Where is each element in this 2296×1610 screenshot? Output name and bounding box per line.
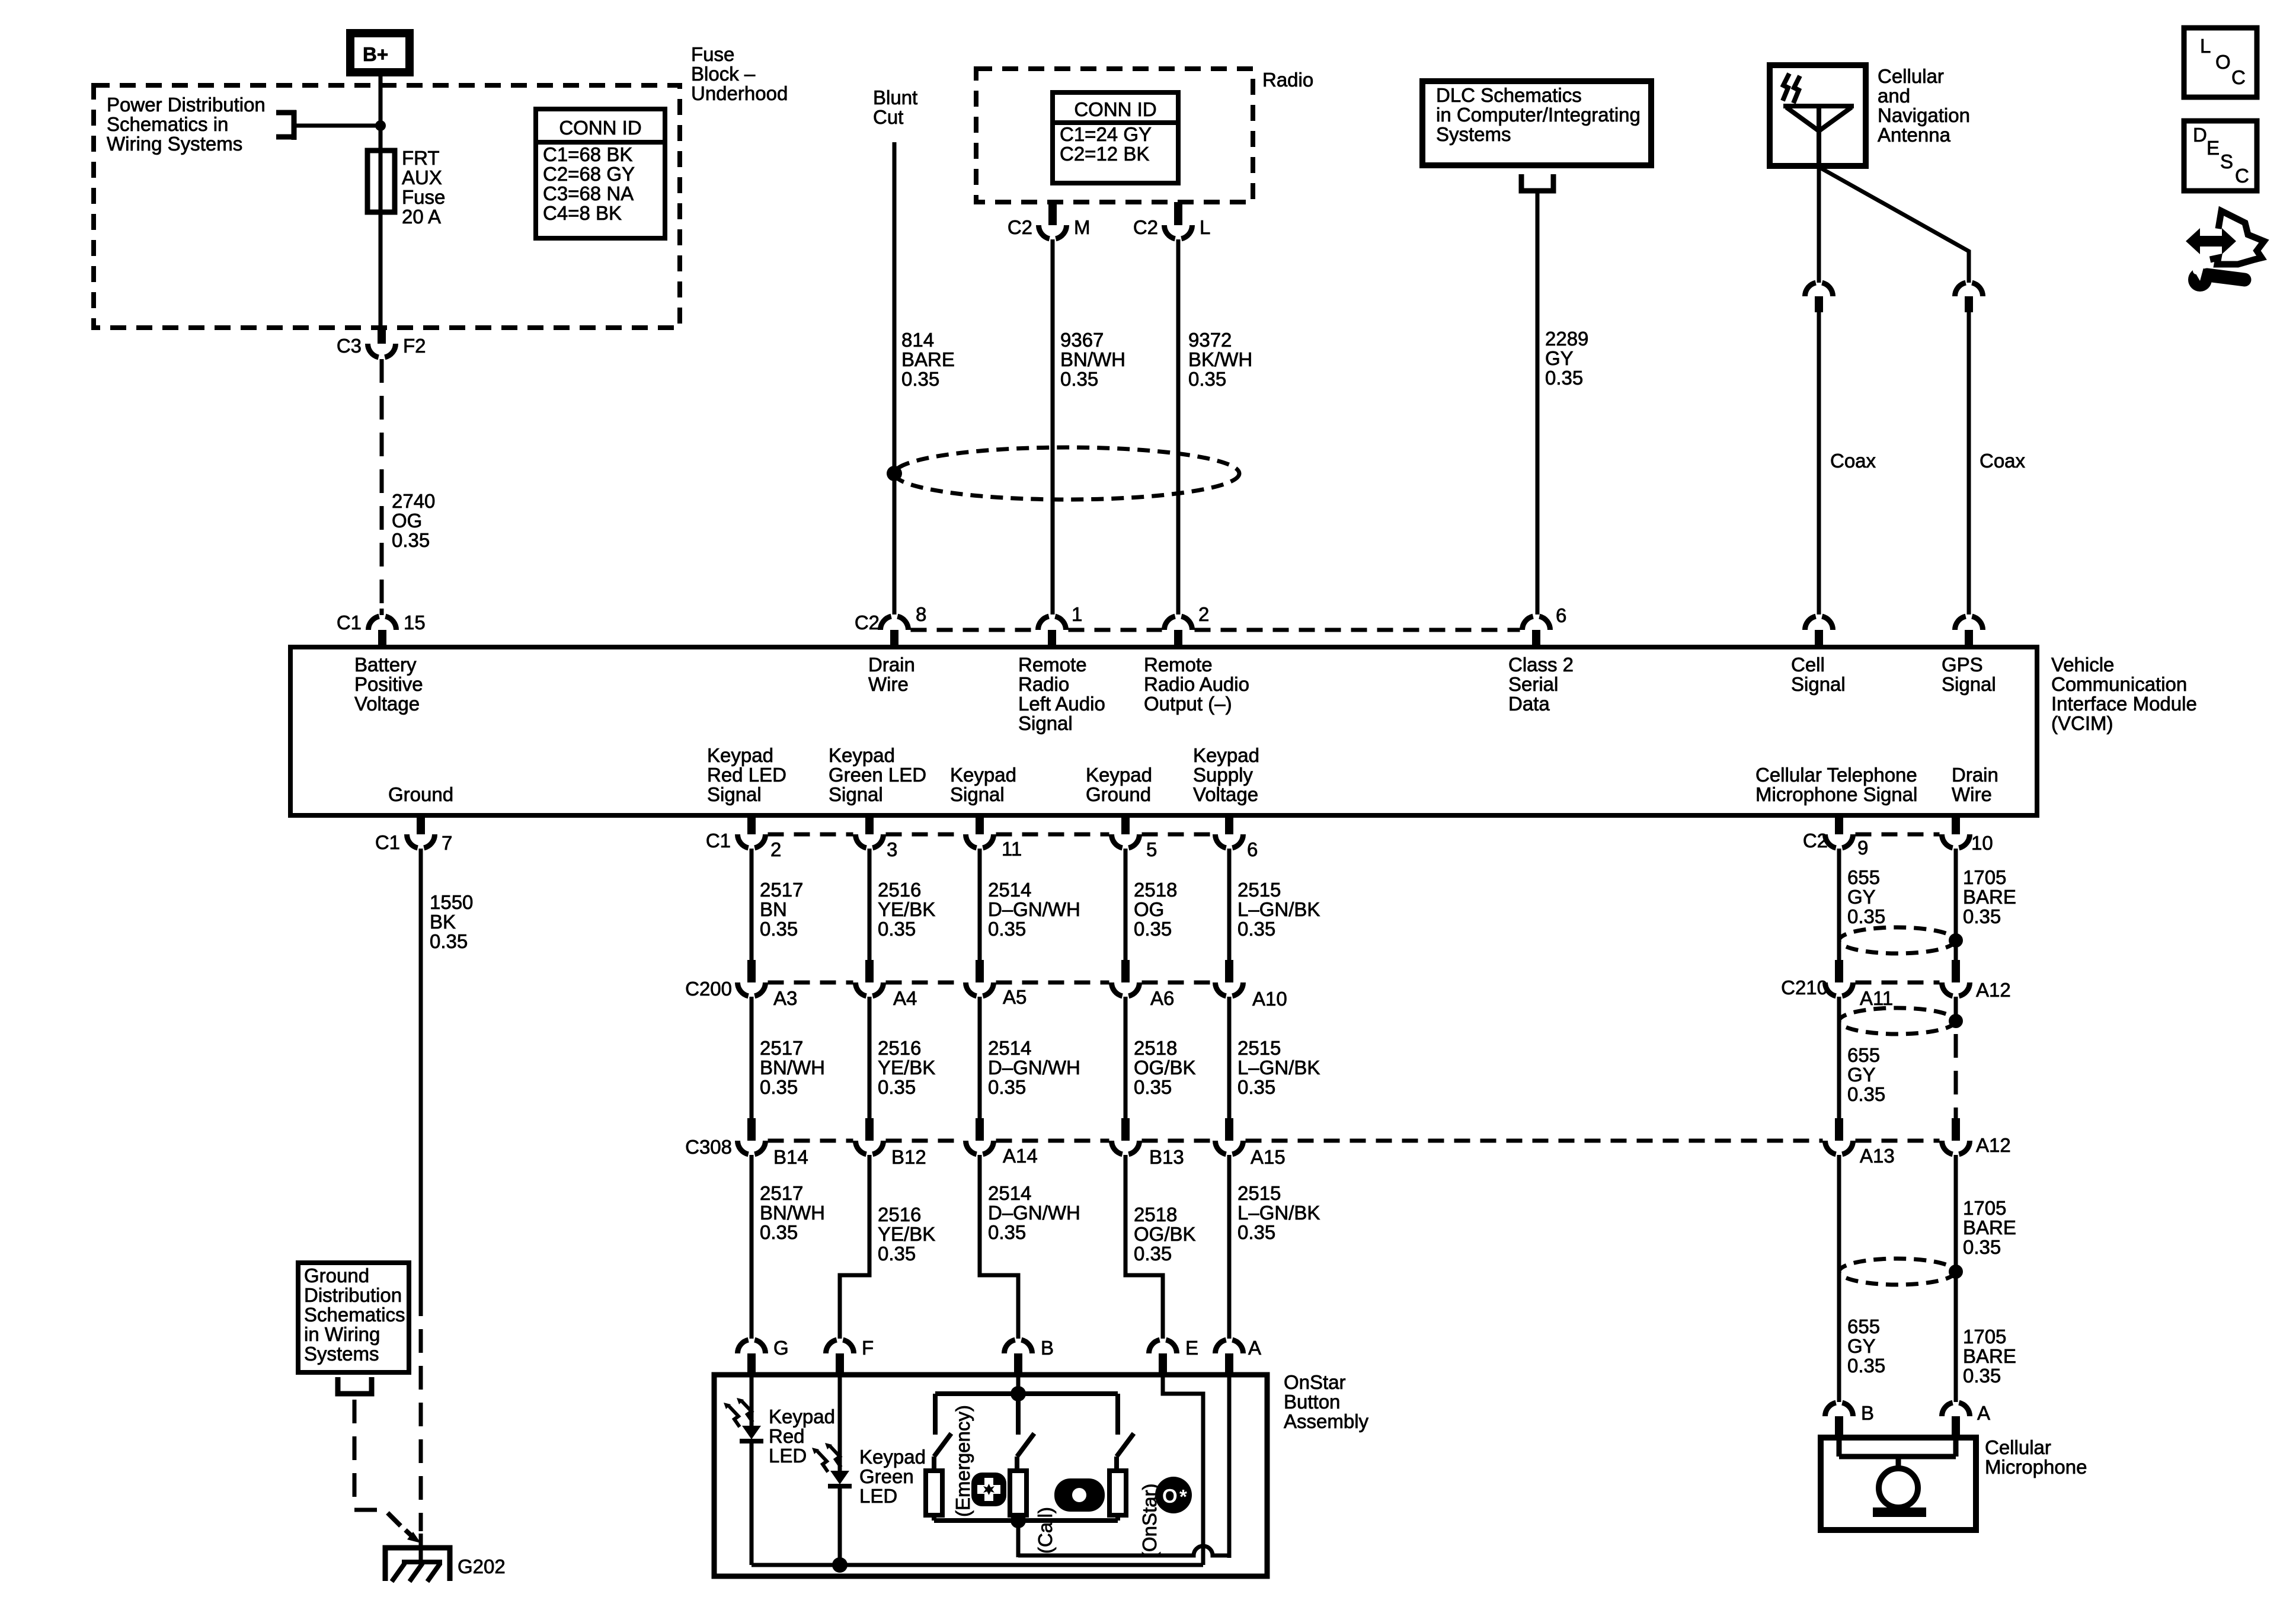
svg-text:G: G — [773, 1337, 789, 1359]
svg-text:(Call): (Call) — [1034, 1507, 1056, 1554]
connector C1 15 — [337, 612, 426, 647]
svg-text:OnStar: OnStar — [1284, 1371, 1346, 1393]
svg-text:C3: C3 — [337, 335, 362, 357]
svg-text:2515: 2515 — [1237, 1037, 1281, 1059]
connector mic B — [1825, 1402, 1875, 1438]
svg-text:0.35: 0.35 — [901, 368, 939, 390]
resistor emergency — [926, 1457, 942, 1521]
svg-text:DLC Schematics: DLC Schematics — [1436, 84, 1582, 106]
svg-text:Keypad: Keypad — [769, 1406, 835, 1427]
label 655 GY seg3 — [1847, 1315, 1885, 1377]
LOC icon box — [2184, 28, 2257, 97]
label wire 2518 OG/BK seg2 — [1134, 1037, 1196, 1098]
wire keypad col3 seg1 — [978, 849, 982, 960]
label 1705 BARE seg3a — [1963, 1197, 2016, 1258]
svg-text:Wiring Systems: Wiring Systems — [107, 133, 242, 155]
wire G inside — [750, 1375, 754, 1426]
svg-text:G202: G202 — [458, 1555, 506, 1577]
connector C2 L — [1133, 202, 1211, 239]
antenna symbol — [1783, 106, 1854, 167]
twisted pair ellipse mic2 — [1839, 1008, 1955, 1034]
svg-text:Microphone Signal: Microphone Signal — [1755, 783, 1917, 805]
svg-text:CONN ID: CONN ID — [559, 117, 641, 139]
svg-text:0.35: 0.35 — [1847, 1083, 1885, 1105]
svg-text:0.35: 0.35 — [1237, 1221, 1275, 1243]
svg-text:9372: 9372 — [1188, 329, 1232, 351]
label keypad green LED — [859, 1446, 926, 1507]
svg-text:C2: C2 — [1133, 216, 1158, 238]
svg-text:7: 7 — [442, 832, 452, 854]
connector pin 6 — [1522, 604, 1566, 647]
connector pin 2 — [1164, 603, 1209, 647]
svg-text:Red LED: Red LED — [707, 764, 786, 786]
svg-text:0.35: 0.35 — [988, 918, 1026, 940]
label ground vcim — [388, 783, 453, 805]
svg-text:Signal: Signal — [950, 783, 1005, 805]
label wire 2518 OG/BK seg3 — [1134, 1204, 1196, 1265]
wire 1705 seg2b dashed — [1954, 1034, 1958, 1119]
svg-text:2: 2 — [770, 838, 781, 860]
svg-text:L–GN/BK: L–GN/BK — [1237, 1057, 1320, 1078]
svg-text:(Emergency): (Emergency) — [952, 1405, 974, 1517]
fuse block underhood dashed box — [94, 85, 680, 328]
connector C200 A6 — [1112, 960, 1175, 1009]
wire 9372 — [1176, 239, 1181, 614]
connector C2 9 — [1803, 815, 1869, 859]
svg-text:Systems: Systems — [1436, 123, 1511, 145]
svg-text:Left Audio: Left Audio — [1018, 693, 1105, 715]
svg-text:C2: C2 — [855, 612, 880, 633]
label emergency rotated — [952, 1405, 974, 1517]
svg-text:L: L — [1200, 216, 1210, 238]
connector C200 A10 — [1216, 960, 1287, 1010]
svg-text:C2=68 GY: C2=68 GY — [543, 163, 635, 185]
svg-text:Ground: Ground — [304, 1265, 369, 1286]
switch onstar — [1117, 1394, 1134, 1457]
label wire 2289 GY — [1545, 328, 1588, 389]
svg-text:C1: C1 — [337, 612, 362, 633]
svg-text:0.35: 0.35 — [1237, 918, 1275, 940]
svg-text:Drain: Drain — [1952, 764, 1998, 786]
label wire 2517 BN seg1 — [760, 879, 803, 940]
svg-text:Coax: Coax — [1830, 450, 1876, 472]
red LED arrows — [724, 1398, 753, 1427]
svg-text:YE/BK: YE/BK — [878, 1223, 935, 1245]
jump icon double arrow — [2186, 228, 2236, 254]
svg-text:2518: 2518 — [1134, 879, 1177, 901]
svg-text:2518: 2518 — [1134, 1037, 1177, 1059]
svg-text:LED: LED — [769, 1445, 807, 1467]
svg-text:Red: Red — [769, 1425, 805, 1447]
wire 814 drain — [893, 142, 897, 614]
svg-text:Antenna: Antenna — [1878, 124, 1951, 146]
ground arrow — [405, 1530, 421, 1543]
svg-text:Ground: Ground — [1086, 783, 1151, 805]
svg-text:Schematics: Schematics — [304, 1304, 405, 1326]
wire red LED down — [750, 1441, 754, 1565]
svg-text:Wire: Wire — [1952, 783, 1992, 805]
fuse F2 FRT AUX 20A — [367, 151, 395, 212]
svg-text:A3: A3 — [773, 987, 797, 1009]
svg-text:Radio: Radio — [1018, 673, 1069, 695]
svg-text:9: 9 — [1857, 837, 1868, 859]
wire 1550 solid — [419, 849, 423, 1292]
svg-text:AUX: AUX — [402, 167, 442, 188]
label 1705 BARE seg1 — [1963, 866, 2016, 927]
label cell signal — [1791, 654, 1846, 695]
wire 655 seg3 — [1837, 1155, 1841, 1402]
dashed jumper bottom mic row — [1856, 833, 1940, 837]
svg-text:Remote: Remote — [1144, 654, 1213, 676]
label coax gps — [1980, 450, 2026, 472]
svg-text:Green LED: Green LED — [829, 764, 926, 786]
wire keypad col1 seg2 — [750, 997, 754, 1118]
connector C200 A3 — [685, 960, 797, 1009]
svg-text:0.35: 0.35 — [878, 1076, 916, 1098]
svg-text:6: 6 — [1556, 604, 1566, 626]
connector cell coax vcim — [1805, 616, 1833, 647]
svg-text:C2: C2 — [1803, 830, 1828, 852]
connector C210 A12 — [1942, 960, 2011, 1001]
svg-text:D–GN/WH: D–GN/WH — [988, 898, 1080, 920]
svg-text:0.35: 0.35 — [1134, 1243, 1172, 1265]
svg-text:Drain: Drain — [868, 654, 915, 676]
svg-text:Vehicle: Vehicle — [2051, 654, 2114, 676]
wire antenna cell — [1817, 167, 1821, 283]
svg-text:Cell: Cell — [1791, 654, 1825, 676]
svg-text:D–GN/WH: D–GN/WH — [988, 1057, 1080, 1078]
svg-text:A13: A13 — [1860, 1145, 1895, 1167]
svg-text:15: 15 — [404, 612, 426, 633]
svg-text:Cut: Cut — [873, 106, 903, 128]
dashed jumper top row — [911, 628, 1520, 632]
icon onstar button — [1155, 1477, 1192, 1513]
svg-text:FRT: FRT — [402, 147, 440, 169]
svg-text:B+: B+ — [363, 43, 388, 65]
svg-text:Assembly: Assembly — [1284, 1410, 1369, 1432]
connector mic A — [1942, 1402, 1991, 1438]
resistor onstar — [1109, 1457, 1126, 1521]
label 655 GY seg1 — [1847, 866, 1885, 927]
svg-text:OG/BK: OG/BK — [1134, 1057, 1196, 1078]
label wire 2514 D–GN/WH seg2 — [988, 1037, 1080, 1098]
svg-text:2516: 2516 — [878, 879, 921, 901]
svg-text:Signal: Signal — [1942, 673, 1996, 695]
wire rail to A with hop — [1018, 1546, 1229, 1555]
label cellular microphone — [1985, 1436, 2087, 1478]
svg-text:Button: Button — [1284, 1391, 1340, 1413]
svg-text:A12: A12 — [1976, 979, 2011, 1001]
label wire 2516 YE/BK seg3 — [878, 1204, 935, 1265]
bracket power distribution — [276, 110, 296, 140]
svg-text:2515: 2515 — [1237, 1182, 1281, 1204]
svg-text:Class 2: Class 2 — [1508, 654, 1574, 676]
svg-text:Microphone: Microphone — [1985, 1456, 2087, 1478]
svg-text:in Wiring: in Wiring — [304, 1323, 380, 1345]
switch bottom rail — [934, 1518, 1118, 1523]
connector C308 A14 — [966, 1118, 1038, 1167]
cellular microphone box — [1821, 1438, 1976, 1530]
svg-text:2516: 2516 — [878, 1204, 921, 1225]
label G202 — [458, 1555, 506, 1577]
connector A13 — [1825, 1118, 1895, 1167]
svg-text:0.35: 0.35 — [878, 1243, 916, 1265]
svg-text:Voltage: Voltage — [1193, 783, 1258, 805]
svg-text:8: 8 — [916, 603, 926, 625]
svg-text:Keypad: Keypad — [707, 744, 773, 766]
svg-text:Voltage: Voltage — [354, 693, 420, 715]
svg-text:0.35: 0.35 — [988, 1076, 1026, 1098]
twisted pair ellipse radio — [894, 447, 1239, 500]
junction dot mic3 — [1949, 1265, 1963, 1279]
svg-text:S: S — [2220, 151, 2233, 172]
svg-text:2516: 2516 — [878, 1037, 921, 1059]
green LED arrows — [812, 1443, 841, 1472]
svg-text:2514: 2514 — [988, 879, 1031, 901]
radio dashed box — [976, 69, 1253, 202]
svg-text:C3=68 NA: C3=68 NA — [543, 183, 634, 204]
label wire 2518 OG seg1 — [1134, 879, 1177, 940]
connector C200 A4 — [856, 960, 917, 1009]
wire bracket to junction — [296, 124, 380, 128]
svg-text:5: 5 — [1146, 838, 1157, 860]
label keypad signal — [950, 764, 1016, 805]
svg-text:1705: 1705 — [1963, 1197, 2006, 1219]
svg-text:BARE: BARE — [1963, 1345, 2016, 1367]
svg-text:Signal: Signal — [1791, 673, 1846, 695]
junction dot B rail — [1011, 1386, 1026, 1401]
connector C210 A11 — [1781, 960, 1893, 1009]
bracket DLC — [1521, 174, 1553, 191]
wire 1550 dashed — [419, 1292, 423, 1531]
svg-text:1705: 1705 — [1963, 1326, 2006, 1347]
svg-text:2518: 2518 — [1134, 1204, 1177, 1225]
label VCIM — [2051, 654, 2197, 734]
label keypad ground — [1086, 764, 1152, 805]
wire A inside — [1227, 1375, 1232, 1558]
svg-text:in Computer/Integrating: in Computer/Integrating — [1436, 104, 1641, 126]
LED cathode line to E — [752, 1563, 1203, 1567]
dashed jumper C200 row — [768, 981, 1213, 985]
svg-text:Power Distribution: Power Distribution — [107, 94, 266, 116]
microphone symbol — [1839, 1438, 1956, 1517]
svg-text:BN/WH: BN/WH — [760, 1057, 825, 1078]
svg-text:0.35: 0.35 — [1847, 1355, 1885, 1377]
label wire 2516 YE/BK seg2 — [878, 1037, 935, 1098]
junction dot call rail — [1011, 1513, 1026, 1528]
label wire 2514 D–GN/WH seg1 — [988, 879, 1080, 940]
svg-text:A: A — [1977, 1402, 1990, 1424]
cellular navigation antenna box — [1770, 65, 1866, 166]
svg-text:Ground: Ground — [388, 783, 453, 805]
svg-text:*: * — [1179, 1486, 1187, 1507]
bracket ground distribution — [338, 1377, 372, 1394]
svg-text:C1=68 BK: C1=68 BK — [543, 143, 632, 165]
wire 9367 — [1051, 239, 1055, 614]
svg-text:C210: C210 — [1781, 977, 1828, 998]
ground distribution box — [298, 1263, 409, 1372]
connector C2 M — [1008, 202, 1091, 239]
wire E inside — [1163, 1375, 1203, 1565]
label wire 2517 BN/WH seg3 — [760, 1182, 825, 1243]
svg-text:BK: BK — [430, 911, 456, 933]
svg-text:B14: B14 — [773, 1146, 808, 1168]
connector C1 2 — [706, 815, 782, 860]
svg-text:M: M — [1074, 216, 1091, 238]
svg-text:Schematics in: Schematics in — [107, 113, 228, 135]
wire B+ to junction — [379, 76, 383, 127]
svg-text:L–GN/BK: L–GN/BK — [1237, 898, 1320, 920]
svg-text:Signal: Signal — [707, 783, 762, 805]
wire F inside — [838, 1375, 842, 1471]
label keypad supply voltage — [1193, 744, 1259, 805]
connector pin 1 — [1038, 603, 1082, 647]
label 1705 BARE seg3b — [1963, 1326, 2016, 1387]
power node B+ box — [350, 33, 410, 72]
wire call rail down — [1016, 1521, 1021, 1557]
svg-text:Keypad: Keypad — [950, 764, 1016, 786]
wire col4 to E — [1125, 1155, 1163, 1339]
label wire 2515 L–GN/BK seg2 — [1237, 1037, 1320, 1098]
junction dot fuse feed — [375, 120, 386, 131]
junction dot mic2 — [1949, 1014, 1963, 1028]
connector C308 B14 — [685, 1118, 808, 1168]
svg-text:BN/WH: BN/WH — [760, 1202, 825, 1224]
wire 655 seg1 — [1837, 849, 1841, 960]
svg-text:Keypad: Keypad — [829, 744, 895, 766]
wire col2 to F — [840, 1155, 869, 1339]
coax connector cell — [1805, 283, 1833, 312]
svg-text:2517: 2517 — [760, 1037, 803, 1059]
svg-text:Communication: Communication — [2051, 673, 2187, 695]
svg-text:Underhood: Underhood — [691, 82, 788, 104]
svg-text:C: C — [2231, 66, 2246, 88]
conn id table fuse block — [536, 109, 665, 238]
svg-text:B13: B13 — [1149, 1146, 1184, 1168]
connector pin 11 — [966, 815, 1022, 860]
svg-text:0.35: 0.35 — [1134, 1076, 1172, 1098]
svg-text:Fuse: Fuse — [402, 186, 445, 208]
svg-text:Block –: Block – — [691, 63, 756, 85]
label wire 2516 YE/BK seg1 — [878, 879, 935, 940]
wire keypad col4 seg1 — [1124, 849, 1128, 960]
svg-text:C2: C2 — [1008, 216, 1032, 238]
svg-text:B: B — [1861, 1402, 1874, 1424]
svg-text:2514: 2514 — [988, 1037, 1031, 1059]
twisted pair ellipse mic1 — [1839, 927, 1955, 953]
label wire 2515 L-GN/BK seg3 — [1237, 1182, 1320, 1243]
svg-text:Radio Audio: Radio Audio — [1144, 673, 1249, 695]
svg-text:Radio: Radio — [1262, 69, 1313, 91]
wire junction to fuse — [379, 126, 383, 213]
svg-text:11: 11 — [1002, 838, 1022, 860]
label FRT AUX fuse — [402, 147, 445, 228]
label battery positive voltage — [354, 654, 423, 715]
svg-text:655: 655 — [1847, 866, 1880, 888]
svg-text:BN/WH: BN/WH — [1060, 348, 1125, 370]
svg-text:A10: A10 — [1252, 988, 1287, 1010]
connector C1 7 — [375, 815, 453, 854]
svg-text:A14: A14 — [1003, 1145, 1038, 1167]
label blunt cut — [873, 87, 917, 128]
label wire 2740 OG — [392, 490, 435, 551]
svg-text:O: O — [2215, 51, 2231, 73]
svg-text:Signal: Signal — [1018, 712, 1073, 734]
svg-text:OG: OG — [1134, 898, 1164, 920]
svg-text:Serial: Serial — [1508, 673, 1558, 695]
label class 2 serial data — [1508, 654, 1574, 715]
label DLC schematics — [1436, 84, 1641, 145]
svg-text:Coax: Coax — [1980, 450, 2026, 472]
svg-text:2517: 2517 — [760, 1182, 803, 1204]
connector A12 lower — [1942, 1118, 2011, 1156]
label onstar button assembly — [1284, 1371, 1369, 1432]
icon call button — [1054, 1478, 1105, 1512]
svg-text:Battery: Battery — [354, 654, 417, 676]
svg-text:1550: 1550 — [430, 891, 473, 913]
svg-text:0.35: 0.35 — [1963, 1365, 2001, 1387]
svg-text:9367: 9367 — [1060, 329, 1104, 351]
svg-text:OG: OG — [392, 510, 422, 532]
label wire 9372 BK/WH — [1188, 329, 1252, 390]
svg-text:0.35: 0.35 — [760, 1221, 798, 1243]
svg-text:2740: 2740 — [392, 490, 435, 512]
svg-text:Keypad: Keypad — [1086, 764, 1152, 786]
svg-text:C1=24 GY: C1=24 GY — [1060, 123, 1152, 145]
label remote radio audio output — [1144, 654, 1249, 715]
svg-text:0.35: 0.35 — [1545, 367, 1583, 389]
svg-text:A12: A12 — [1976, 1134, 2011, 1156]
label wire 1550 BK — [430, 891, 473, 952]
svg-text:0.35: 0.35 — [760, 1076, 798, 1098]
label radio — [1262, 69, 1313, 91]
connector pin 10 — [1942, 815, 1993, 854]
wire col3 to B — [980, 1155, 1018, 1339]
wire green LED down — [838, 1486, 842, 1565]
svg-text:Remote: Remote — [1018, 654, 1087, 676]
svg-text:F: F — [862, 1337, 874, 1359]
connector pin 5 — [1112, 815, 1157, 860]
wire keypad col1 seg1 — [750, 849, 754, 960]
svg-text:BARE: BARE — [901, 348, 955, 370]
connector F — [826, 1337, 874, 1375]
svg-text:2515: 2515 — [1237, 879, 1281, 901]
dashed jumper C210 row — [1856, 981, 1940, 985]
svg-text:and: and — [1878, 85, 1910, 107]
svg-text:C1: C1 — [375, 831, 400, 853]
label cellular telephone microphone signal — [1755, 764, 1917, 805]
wrench icon — [2188, 263, 2244, 292]
svg-text:D: D — [2193, 124, 2207, 146]
label drain wire vcim — [868, 654, 915, 695]
wire keypad col5 seg2 — [1227, 997, 1232, 1118]
svg-text:A5: A5 — [1003, 986, 1027, 1008]
svg-text:(VCIM): (VCIM) — [2051, 712, 2113, 734]
label power distribution schematics — [107, 94, 266, 155]
wire keypad col2 seg2 — [868, 997, 872, 1118]
label onstar rotated — [1139, 1483, 1160, 1558]
switch call — [1017, 1394, 1034, 1457]
label 655 GY seg2 — [1847, 1044, 1885, 1105]
svg-text:YE/BK: YE/BK — [878, 898, 935, 920]
label call rotated — [1034, 1507, 1056, 1554]
svg-text:CONN ID: CONN ID — [1074, 98, 1156, 120]
junction dot F cathode — [832, 1557, 848, 1573]
label fuse block underhood — [691, 43, 788, 104]
connector C308 B12 — [856, 1118, 926, 1168]
svg-text:Interface Module: Interface Module — [2051, 693, 2197, 715]
label wire 2514 D-GN/WH seg3 — [988, 1182, 1080, 1243]
